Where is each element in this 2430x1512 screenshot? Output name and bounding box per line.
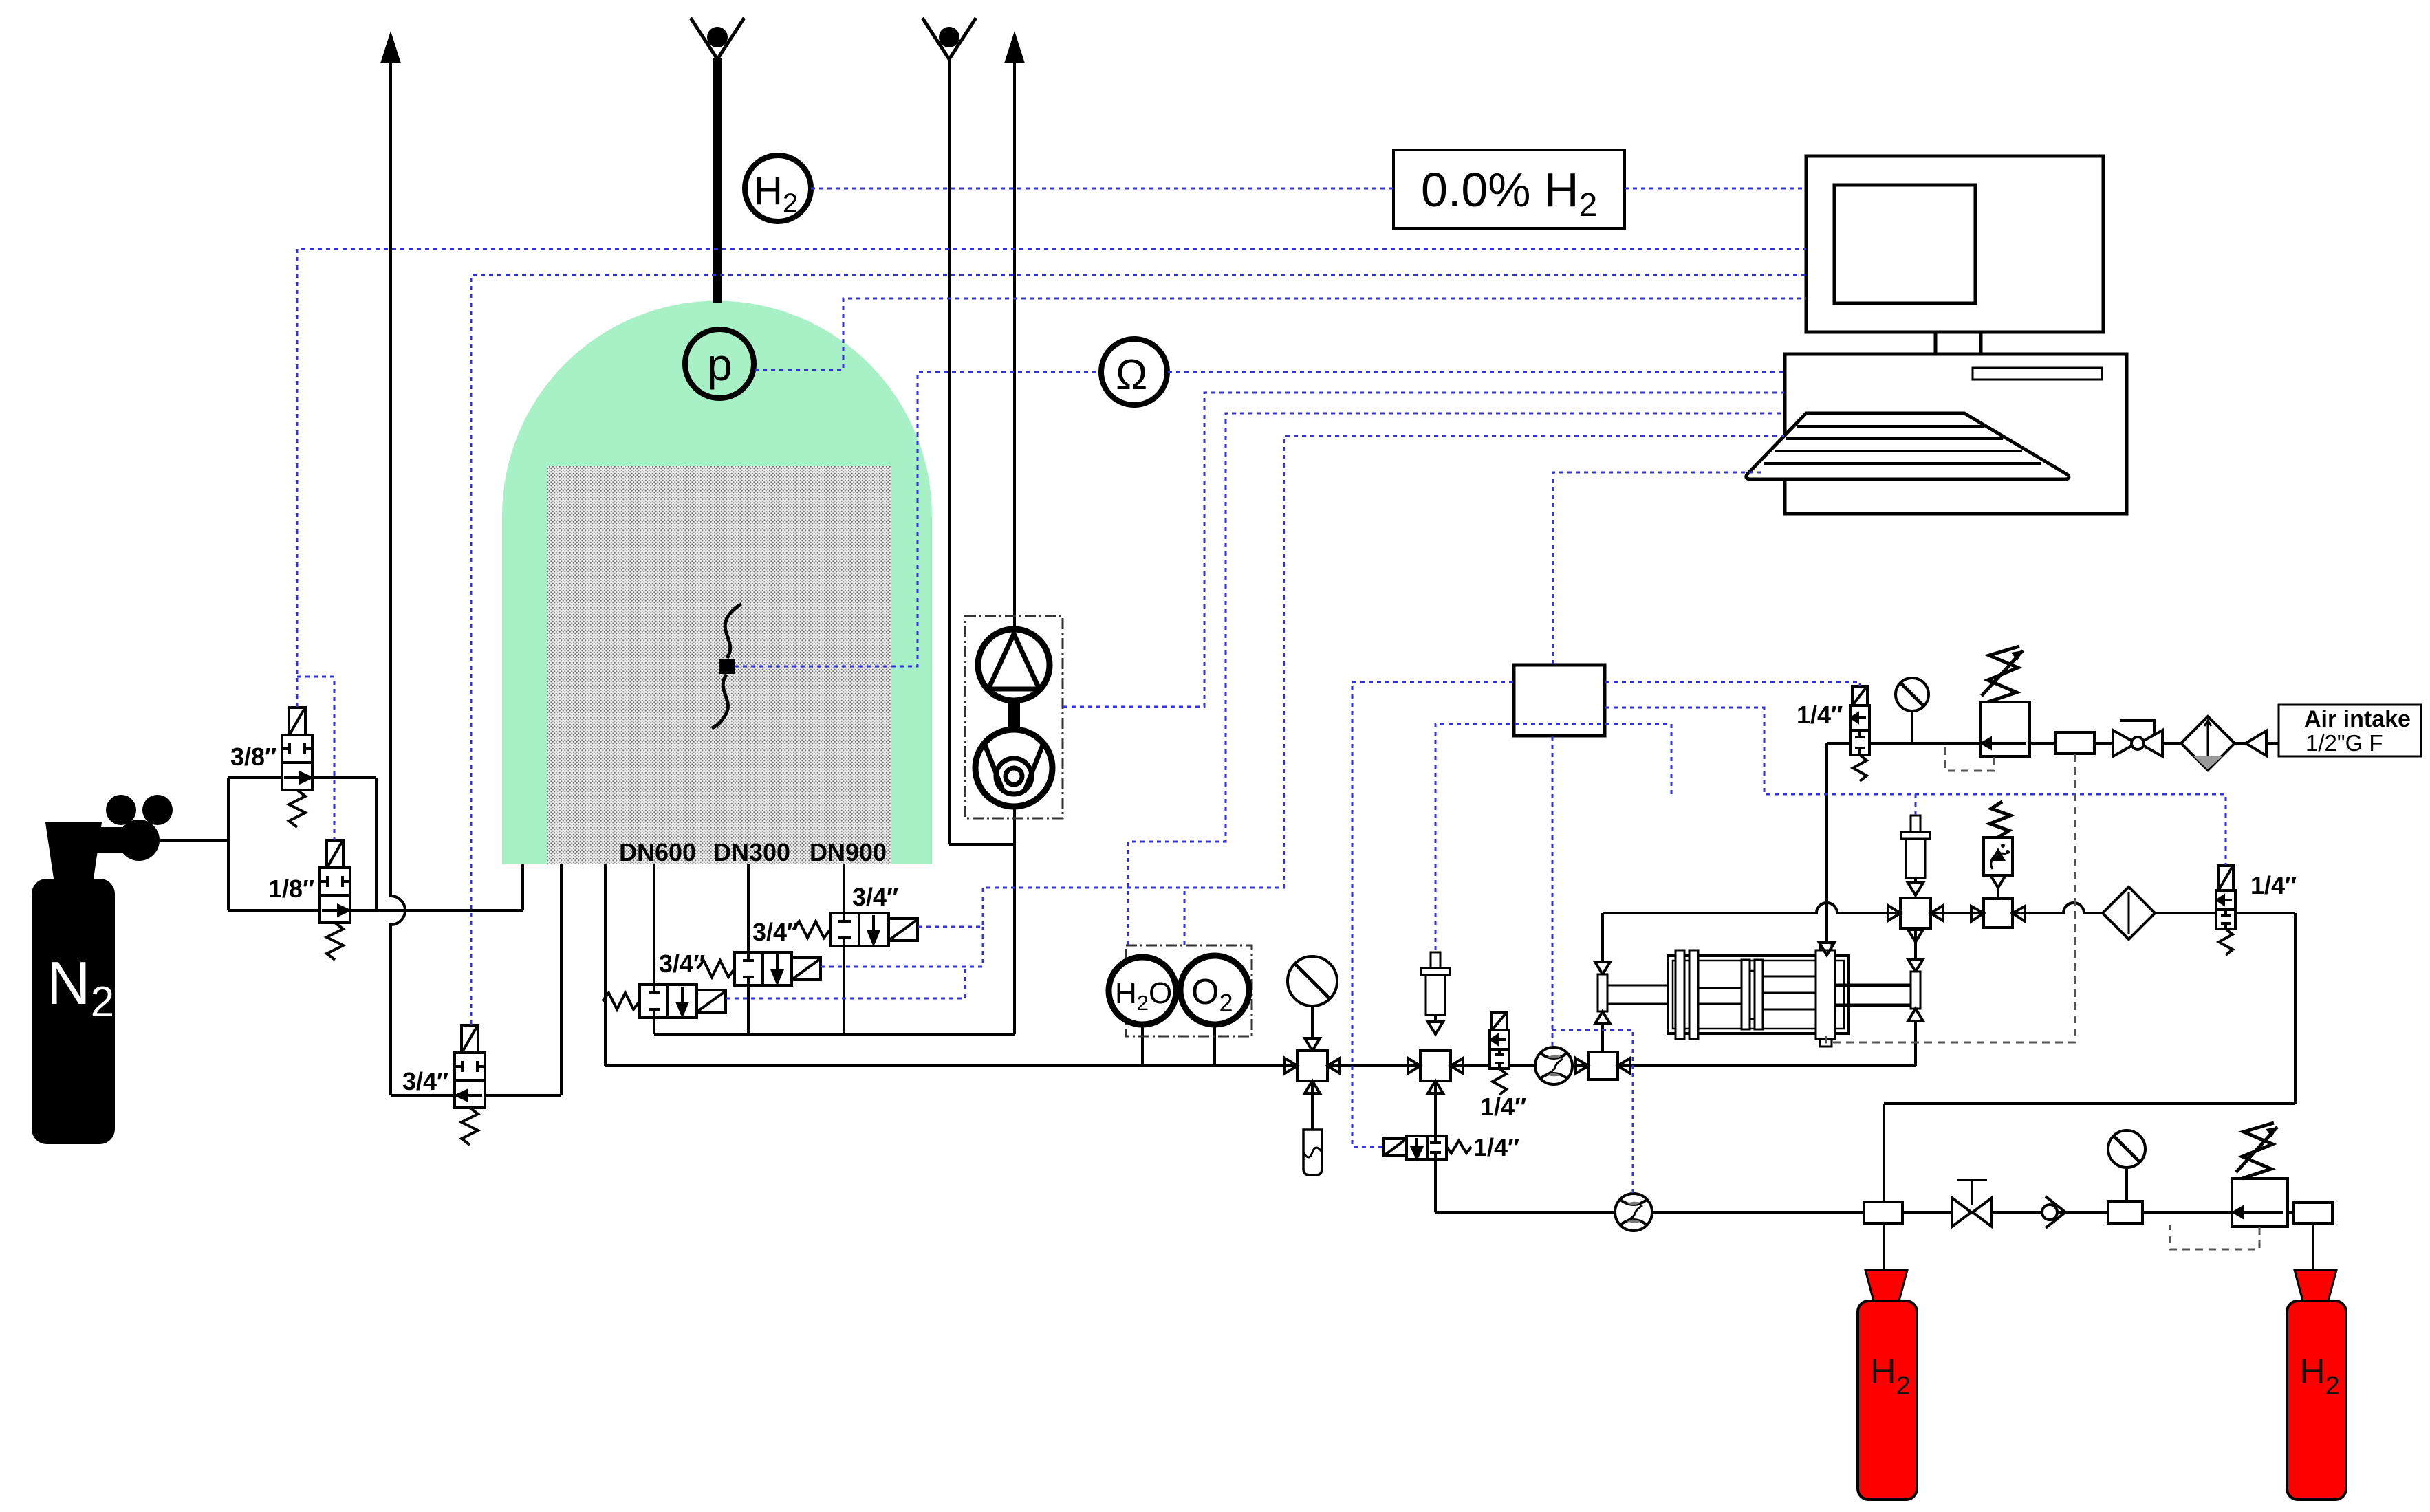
air intake label box [2279,705,2421,756]
wire dome sample downcomer [604,864,607,1066]
signal DN300 valve [821,927,983,967]
wire DN300 drop [747,864,750,1034]
booster assembly [1607,943,1911,1047]
flare symbol 1 [691,18,744,59]
solenoid valve 1/8in [320,840,350,960]
signal 3/4in vent valve [471,275,1806,1025]
wire air intake main line [1827,742,2279,745]
0.0% H2 display box [1393,150,1625,228]
igniter tip [719,659,735,674]
pilot air regulator [1945,745,1994,771]
signal 3/8in valve [297,249,1806,707]
booster relief valve [1971,802,2025,928]
solenoid valve DN900 3/4in [793,913,918,946]
H2 check valve [2042,1196,2065,1228]
svg-text:3/4″: 3/4″ [659,950,705,978]
signal p sensor [755,298,1806,370]
wire H2 riser run [1884,1102,2295,1105]
signal gas return valve [1605,708,2226,865]
signal H2 sensor to display [811,188,1393,190]
svg-text:1/4″: 1/4″ [1480,1093,1526,1121]
N2 cylinder [32,795,173,1144]
svg-text:DN600: DN600 [619,838,696,866]
mixing gauge [1288,956,1337,1051]
signal Omega to computer [1168,371,1784,373]
O2 sensor circle [1180,956,1249,1025]
wire main mixing line [605,1064,1916,1067]
signal flow meters [1552,736,1554,1046]
pilot H2 regulator [2170,1225,2259,1249]
cross junction 3 [1888,898,1943,928]
wire vent riser to dome [560,864,563,1095]
base unit slot [1973,368,2102,380]
signal H2 feed valve [1352,682,1513,1147]
H2 sensor circle [745,155,811,221]
wire main line corner riser [1914,1021,1917,1066]
signal filter3 branch [1915,794,1917,815]
H2 outlet block [2294,1203,2332,1223]
flow meter mixing line [1535,1047,1572,1084]
solenoid valve DN600 3/4in [603,985,726,1018]
vent arrow pump line [1004,31,1025,63]
computer screen [1834,185,1975,303]
svg-text:1/4″: 1/4″ [1797,701,1843,729]
igniter squiggle [712,604,741,728]
flare symbol 2 [922,18,976,59]
svg-text:1/4″: 1/4″ [2250,871,2297,899]
wire flare2 vertical [948,59,951,844]
wire cross3 to relief run with jump [1931,903,2295,913]
svg-text:3/4″: 3/4″ [852,883,898,911]
wire drain bus [654,1033,1015,1036]
wire H2 feed bottom run [1435,1211,1864,1214]
signal display to computer [1625,188,1806,190]
svg-text:3/8″: 3/8″ [230,743,276,771]
gas filter column 3 [1901,815,1930,895]
wire gas return drop [2294,913,2297,1104]
svg-text:DN300: DN300 [713,838,790,866]
test chamber green dome [502,300,932,864]
wire pump vent vertical [1013,62,1016,1034]
wire flare2 tee [949,843,1015,846]
wire H2O sensor tap [1141,1025,1144,1066]
H2 gauge block [2108,1201,2142,1223]
wire booster air head line with jump [1603,903,1900,913]
wire O2 sensor tap [1213,1025,1216,1066]
computer base unit [1785,354,2127,514]
wire tee riser [1883,1104,1885,1202]
gas return filter diamond [2103,887,2155,939]
svg-text:0.0% H2: 0.0% H2 [1421,163,1597,223]
wire purge riser to dome [521,864,524,910]
cross junction 1 [1285,1051,1340,1093]
svg-text:1/8″: 1/8″ [268,875,314,903]
svg-text:DN900: DN900 [810,838,887,866]
wire air drive vertical [1825,743,1828,943]
pilot booster silencer [1826,754,2075,1042]
solenoid valve 1/4in gas return [2216,866,2235,955]
keyboard [1746,413,2069,479]
signal O2 branch [1184,888,1186,945]
signal igniter to Omega [735,372,1100,666]
wire bottle1 stem [1883,1223,1885,1270]
air silencer block [2055,732,2094,754]
H2 pressure regulator [2232,1123,2288,1227]
signal 1/8in valve branch [297,677,334,840]
booster air inlet arrow [1819,943,1834,955]
wire H2 regulator line [1902,1211,2294,1214]
svg-text:3/4″: 3/4″ [402,1067,448,1095]
flow meter H2 line [1615,1194,1652,1231]
vacuum pump upper [978,629,1050,701]
wire 3/8in valve line [228,776,376,779]
vacuum pump lower [975,730,1052,807]
signal analyser box [1128,413,1784,945]
solenoid valve 1/4in air drive [1850,686,1869,781]
svg-text:1/4″: 1/4″ [1473,1133,1519,1161]
svg-text:1/2"G F: 1/2"G F [2306,730,2383,756]
Omega sensor circle [1101,339,1167,405]
wire cross1 sample drop [1311,1081,1314,1130]
wire air head down [1601,913,1604,962]
wire 1/8in valve line with jump [228,909,523,912]
signal DN600 valve [726,967,965,998]
signal air drive valve [1605,682,1860,686]
svg-text:p: p [707,339,733,390]
vent arrow left [380,31,401,63]
signal vacuum pump [1063,393,1784,707]
wire N2 valve loop left vertical [227,778,230,910]
wire loop right vertical [375,778,378,910]
monitor stand [1935,332,1981,354]
wire cross3 bottom drop [1914,928,1917,959]
air filter diamond [2181,716,2235,770]
solenoid valve 1/4in mixing line [1490,1012,1509,1095]
wire cross2 H2 feed drop [1434,1081,1437,1212]
vacuum pump dashdot box [965,616,1063,818]
wire N2 feed [160,839,228,842]
wire DN900 drop [843,864,845,1034]
air inlet check triangle [2246,731,2266,756]
H2 bottle 1 [1858,1270,1917,1500]
solenoid valve 3/8in [282,708,312,827]
air pressure gauge [1896,678,1929,743]
air shutoff needle valve [2113,721,2162,756]
p sensor circle [685,329,754,398]
chamber vent stack thick pipe [713,58,722,303]
cross junction 2 [1408,1051,1463,1093]
solenoid valve 3/4in vent [455,1025,485,1145]
left gas head column [1595,962,1610,1024]
wire vent line left vertical [391,62,405,1095]
booster outlet block [1576,1052,1630,1080]
H2 bottle 2 [2287,1270,2346,1500]
H2O O2 analyser dashdot box [1126,945,1252,1036]
solenoid valve DN300 3/4in [697,952,821,985]
solenoid valve 1/4in H2 feed [1384,1136,1471,1159]
wire 3/4in vent valve line [391,1094,561,1097]
svg-text:Ω: Ω [1116,351,1147,399]
wire DN600 drop [653,864,655,1034]
signal filter2 branch [1435,724,1671,952]
H2 manifold tee block [1864,1202,1902,1223]
computer monitor [1806,156,2103,332]
signal junction box to computer [1553,472,1761,664]
wire bottle2 stem [2312,1223,2314,1270]
H2O sensor circle [1109,957,1176,1025]
pump coupling [1008,701,1020,731]
sample bottle [1303,1130,1322,1175]
svg-text:Air intake: Air intake [2304,706,2411,732]
signal junction box [1514,665,1605,736]
H2 gauge [2108,1130,2145,1201]
gas filter column 2 [1421,952,1450,1034]
H2 shutoff valve [1952,1180,1992,1227]
air pressure regulator [1981,646,2030,756]
signal DN900 valve [918,436,1784,927]
wire air head to block [1601,1024,1604,1052]
right gas head column [1908,930,1923,1021]
chamber packed-bed gray fill [547,466,891,864]
svg-text:3/4″: 3/4″ [752,918,799,946]
